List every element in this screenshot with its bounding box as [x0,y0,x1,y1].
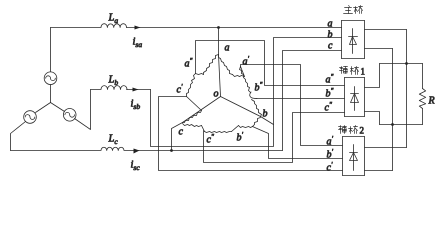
arrow i_sa [135,26,141,30]
svg-text:La: La [108,13,119,26]
label 主桥 main bridge [344,6,363,14]
winding a2-c1 left outer edge [187,74,196,97]
wire b1 route to aux bridge 2 input b1 [253,127,343,159]
winding a-a2 (left branch of corner a) [204,55,219,75]
winding b-b2 (upper branch of corner b) [252,100,262,117]
inductor La [101,24,127,28]
svg-text:c″: c″ [325,101,332,114]
svg-text:1: 1 [361,67,366,77]
wire Va to top rail [50,28,52,72]
label 辅桥1 aux bridge 1 [340,67,359,75]
wire middle rail to corner [127,89,151,91]
svg-text:a″: a″ [326,73,334,86]
AC source Vb (right source circle) [63,109,76,122]
wire b2 kink [250,92,257,98]
wire aux1 + output [365,64,380,88]
wire + bus rail [380,63,423,65]
winding c-c2 (bottom left winding) [183,124,202,127]
wire + riser [406,30,408,148]
diode bridge U2 aux1 (辅桥1) box with diode [345,77,365,79]
wire aux1 - output [365,112,380,125]
winding c-c1 (upper branch of corner c) [183,111,202,123]
wire bottom rail to riser [125,150,283,152]
wire aux2 - output [365,170,393,172]
wire Vc to bottom rail [11,122,26,151]
winding a1-b2 right outer edge [240,67,251,93]
wire - bus rail [380,124,423,126]
svg-text:b: b [328,30,333,41]
label 辅桥2 aux bridge 2 [339,126,358,134]
node - bus junction [391,123,394,126]
wire spoke o-a [219,55,221,97]
wire source-Y neutral node [50,85,52,103]
wire b2 route to aux bridge 1 input b2 [257,98,345,100]
svg-text:isa: isa [133,37,143,50]
diode bridge U3 aux2 (辅桥2) box with diode [343,136,365,138]
svg-text:R: R [428,96,435,107]
svg-text:c: c [179,127,184,138]
resistor R [419,89,425,109]
svg-text:b′: b′ [237,131,244,144]
diode bridge U1 main (主桥) box with diode [342,20,365,22]
arrow i_sb [133,88,139,92]
wire load branch top [422,64,424,89]
node junction bottom rail to winding c [170,149,173,152]
svg-text:c″: c″ [207,133,214,146]
svg-text:Lb: Lb [108,75,119,88]
wire load branch bottom [422,109,424,125]
wire a2 hat route to aux bridge 1 input a2 [196,41,345,86]
wire bottom rail left segment [11,150,101,152]
winding b-b1 (lower branch of corner b) [253,118,261,127]
svg-text:c′: c′ [327,161,333,174]
svg-text:c′: c′ [177,83,183,96]
wire vertex c drop to bottom rail [172,123,183,151]
svg-text:a: a [328,19,333,30]
wire aux2 + output [365,147,407,149]
svg-text:b″: b″ [326,87,334,100]
wire main bridge + output [365,29,407,31]
svg-text:o: o [214,89,219,100]
node + bus junction [405,62,408,65]
svg-text:isc: isc [131,160,141,173]
AC source Va (top phase-a source circle) [44,72,57,85]
winding c2-b1 bottom windings [205,132,232,133]
wire - riser [392,49,394,171]
wire a1 kink [241,67,245,77]
svg-text:2: 2 [360,126,365,136]
svg-text:a: a [225,43,230,54]
wire c1 route to aux bridge 2 input c1 [159,97,343,171]
svg-text:Lc: Lc [108,134,119,147]
arrow i_sc [134,149,140,154]
inductor Lc [101,147,124,150]
inductor Lb [101,86,127,90]
winding a-a1 (right branch of corner a) [219,55,233,75]
wire main bridge - output [365,48,393,50]
svg-text:isb: isb [131,99,141,112]
svg-text:b″: b″ [255,81,263,94]
wire c2 riser to aux bridge 1 input c2 [204,113,345,163]
svg-text:a′: a′ [243,55,250,68]
node junction top rail to winding a [217,26,220,29]
wire spoke o-b [221,97,261,117]
wire phase b detour down-right-up to main bridge input b [151,38,342,147]
svg-text:a″: a″ [185,57,193,70]
wire top rail to main bridge input a [127,27,342,29]
wire top rail left segment [51,27,101,29]
wire Vb to middle rail [75,90,91,130]
svg-text:c: c [328,41,333,52]
wire middle rail left segment [91,89,101,91]
wire vertex a drop from top rail [218,28,220,55]
wire phase c riser to main bridge input c [283,51,342,151]
wire vertex b drop to phase b riser [261,117,274,125]
wire spoke o-c [183,97,221,123]
AC source Vc (left source circle) [24,111,37,124]
wire c1 kink [187,97,202,111]
svg-text:b: b [263,109,268,120]
wire a1 route to aux bridge 2 input a1 [241,65,343,146]
